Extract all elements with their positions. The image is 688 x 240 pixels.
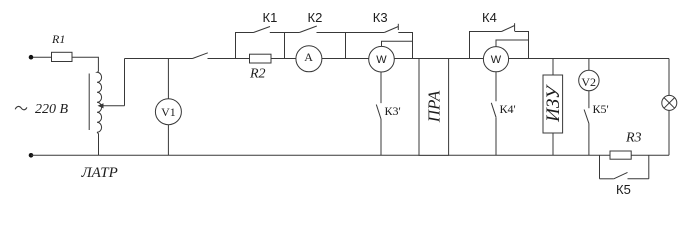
switch K4 blade bbox=[502, 26, 515, 32]
wire dot to R1 bbox=[33, 56, 52, 58]
wire K5' to bottom rail bbox=[588, 123, 590, 155]
svg-text:R1: R1 bbox=[51, 32, 65, 46]
wire V2 upper stub bbox=[588, 59, 590, 71]
label R3 bbox=[625, 130, 642, 145]
wire K5 bypass left segment bbox=[600, 178, 614, 180]
wire K3' to bottom rail bbox=[380, 119, 382, 155]
label K4' bbox=[500, 102, 516, 116]
svg-text:R2: R2 bbox=[249, 67, 266, 82]
wire W1 bottom lead bbox=[380, 72, 382, 103]
tap arrow of LATR bbox=[98, 103, 125, 108]
label ~ 220 V bbox=[15, 102, 68, 117]
voltmeter V2 bbox=[579, 70, 599, 90]
svg-text:К2: К2 bbox=[308, 10, 323, 25]
wire IZU bottom stub bbox=[552, 133, 554, 155]
switch K4 contact tick bbox=[514, 23, 516, 31]
svg-text:ЛАТР: ЛАТР bbox=[81, 165, 118, 181]
bypass rail segment K1-K2 bbox=[270, 32, 300, 34]
wire V2 to K5' bbox=[588, 91, 590, 109]
label K5 bbox=[616, 182, 631, 197]
svg-text:К4': К4' bbox=[500, 102, 516, 116]
switch K5' blade bbox=[584, 110, 589, 124]
label K1 bbox=[263, 10, 278, 25]
label K2 bbox=[308, 10, 323, 25]
wire W1 voltage lead bbox=[382, 41, 413, 46]
label K5' bbox=[593, 102, 609, 116]
terminal top-left bbox=[29, 55, 34, 60]
svg-text:К3': К3' bbox=[385, 104, 401, 118]
resistor R2 bbox=[250, 54, 272, 63]
voltmeter V1 bbox=[155, 99, 181, 125]
switch K4' blade bbox=[491, 103, 496, 117]
wire bypass drop at W1 right bbox=[412, 32, 414, 59]
wire K4 bypass right drop bbox=[528, 31, 530, 59]
switch K2 blade bbox=[299, 26, 316, 33]
wire K4' to bottom rail bbox=[495, 117, 497, 155]
wire V1 upper stub bbox=[167, 59, 169, 99]
label K4 bbox=[482, 10, 497, 25]
switch K3 contact tick bbox=[397, 24, 399, 30]
svg-text:W: W bbox=[491, 54, 502, 66]
svg-text:R3: R3 bbox=[625, 130, 642, 145]
svg-text:К5: К5 bbox=[616, 182, 631, 197]
wire W2 voltage lead bbox=[496, 40, 529, 47]
label R1 bbox=[51, 32, 65, 46]
svg-text:К4: К4 bbox=[482, 10, 497, 25]
resistor R1 bbox=[52, 52, 73, 61]
wire V1 lower stub bbox=[167, 125, 169, 156]
wire winding bottom to bottom rail bbox=[97, 132, 99, 155]
svg-text:V1: V1 bbox=[161, 105, 176, 119]
svg-text:V2: V2 bbox=[581, 75, 596, 89]
label K3 bbox=[373, 10, 388, 25]
bottom rail wire bbox=[31, 154, 669, 156]
wire K4 bypass left drop bbox=[469, 31, 471, 59]
svg-text:К3: К3 bbox=[373, 10, 388, 25]
wire tap up to main rail bbox=[124, 59, 126, 106]
bypass rail segment K4 left bbox=[470, 31, 502, 33]
switch K3 blade bbox=[384, 27, 398, 33]
wire IZU top stub bbox=[552, 59, 554, 76]
resistor R3 bbox=[610, 151, 631, 159]
autotransformer core bar bbox=[88, 74, 90, 131]
svg-text:ИЗУ: ИЗУ bbox=[543, 84, 564, 123]
svg-text:ПРА: ПРА bbox=[425, 90, 444, 123]
switch K5 blade bbox=[614, 172, 628, 178]
svg-text:W: W bbox=[376, 54, 387, 66]
ammeter A bbox=[296, 46, 322, 72]
svg-text:К5': К5' bbox=[593, 102, 609, 116]
label R2 bbox=[249, 67, 266, 82]
wire R1 to transformer top bbox=[72, 57, 98, 71]
wattmeter W1 bbox=[369, 46, 395, 72]
main top rail wire bbox=[125, 58, 670, 60]
bypass rail segment K1 bbox=[236, 32, 254, 34]
svg-text:А: А bbox=[304, 50, 313, 64]
bypass rail segment K4 right bbox=[515, 31, 529, 33]
switch K1 blade bbox=[254, 27, 271, 33]
wire K5 bypass right drop bbox=[648, 155, 650, 179]
svg-text:К1: К1 bbox=[263, 10, 278, 25]
wire bypass drop at R2 left bbox=[235, 32, 237, 59]
bypass rail segment K2-K3 bbox=[317, 32, 385, 34]
wire W2 bottom lead bbox=[495, 72, 497, 101]
autotransformer LATR winding bbox=[97, 72, 102, 133]
wattmeter W2 bbox=[483, 47, 508, 72]
wire bypass drop at A right / W1 left bbox=[345, 32, 347, 59]
wire bypass drop at R2 right / A left bbox=[284, 32, 286, 59]
switch K3' blade bbox=[376, 105, 381, 120]
lamp bbox=[662, 95, 677, 110]
wire K5 bypass left drop bbox=[599, 155, 601, 179]
wire lamp upper lead bbox=[668, 59, 670, 96]
bypass rail segment K3 right bbox=[398, 32, 412, 34]
wire K5 bypass right segment bbox=[628, 178, 649, 180]
svg-text:220 В: 220 В bbox=[35, 102, 69, 117]
wire lamp lower lead bbox=[668, 110, 670, 155]
ballast box PRA bbox=[419, 59, 449, 156]
main switch blade bbox=[193, 53, 208, 59]
ignition unit box IZU bbox=[543, 75, 564, 133]
terminal bottom-left bbox=[29, 153, 34, 158]
label K3' bbox=[385, 104, 401, 118]
label LATR bbox=[81, 165, 118, 181]
